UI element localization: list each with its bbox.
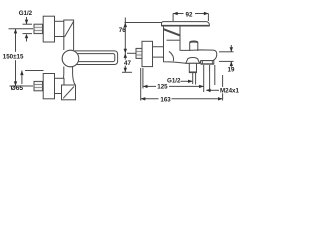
svg-text:76: 76 — [119, 27, 126, 34]
svg-text:G1/2: G1/2 — [19, 10, 33, 17]
svg-text:M24x1: M24x1 — [220, 88, 239, 95]
svg-text:163: 163 — [160, 96, 171, 103]
svg-text:92: 92 — [186, 11, 193, 18]
svg-text:125: 125 — [157, 84, 168, 91]
svg-text:G1/2: G1/2 — [167, 78, 181, 85]
svg-text:150±15: 150±15 — [3, 54, 24, 61]
svg-text:47: 47 — [124, 60, 131, 67]
svg-text:Ø65: Ø65 — [11, 85, 24, 92]
svg-text:19: 19 — [228, 66, 235, 73]
